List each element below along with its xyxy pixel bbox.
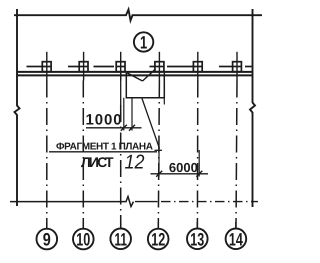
funnel V right branch (143, 69, 156, 81)
gridline 12 axis (158, 81, 159, 229)
gridline 13 axis (196, 81, 198, 229)
grid circle 13 (187, 229, 208, 250)
fragment number circle 1 (134, 32, 153, 51)
svg-text:10: 10 (76, 230, 90, 250)
gridline 14 axis (236, 81, 237, 229)
column K11 square (116, 62, 125, 72)
dimension 1000 line (86, 127, 142, 129)
grid circle 14 (226, 229, 247, 250)
dimension 6000 extension line right (198, 150, 200, 177)
column K9 centerline (46, 52, 48, 81)
funnel V left branch (127, 73, 143, 81)
top border line with break (14, 10, 262, 21)
column K13 centerline (197, 52, 199, 81)
gridline 10 axis (82, 81, 84, 229)
svg-text:ЛИСТ: ЛИСТ (81, 154, 114, 170)
left border line with break (15, 9, 20, 206)
column K11 centerline (120, 52, 122, 81)
column K9 square (42, 62, 51, 72)
dimension 6000 tick left (156, 171, 162, 177)
grid circle 11 (110, 229, 131, 250)
grid circle 12 (148, 229, 169, 250)
svg-text:13: 13 (190, 229, 204, 249)
leader foot tick (155, 149, 163, 151)
svg-text:6000: 6000 (169, 160, 198, 175)
gridline 11 axis (120, 73, 122, 105)
dimension 6000 tick right (196, 171, 202, 177)
svg-text:1000: 1000 (86, 112, 123, 129)
svg-text:1: 1 (140, 32, 147, 52)
wall lower line (17, 74, 253, 76)
svg-text:12: 12 (125, 152, 145, 174)
protrusion rectangle (126, 73, 164, 98)
column K12 centerline (158, 52, 160, 81)
bottom cut line solid part with break (10, 197, 134, 207)
grid circle 10 (73, 229, 94, 250)
wall upper line (17, 71, 253, 73)
dimension 1000 extension line right (131, 98, 133, 131)
svg-text:9: 9 (43, 230, 51, 250)
right border line with break (250, 9, 255, 207)
dimension 1000 extension line left (123, 98, 125, 131)
gridline 9 axis (46, 81, 48, 229)
label underline (49, 151, 157, 153)
dimension 1000 tick right (129, 125, 135, 131)
dimension 6000 line (151, 173, 209, 175)
column K10 square (79, 62, 88, 72)
svg-text:12: 12 (151, 230, 165, 250)
column K10 centerline (83, 52, 85, 81)
column K12 square (155, 62, 164, 72)
dimension 1000 tick left (121, 125, 127, 131)
column K14 centerline (236, 52, 238, 81)
svg-text:14: 14 (229, 229, 243, 249)
column K14 square (233, 62, 242, 72)
flange dash segments at y=66.5 (27, 66, 252, 68)
grid circle 9 (37, 229, 58, 250)
svg-text:11: 11 (114, 229, 127, 249)
bottom cut line dash-dot part (135, 201, 158, 203)
dimension 6000 extension line left (158, 149, 160, 177)
column K13 square (193, 62, 202, 72)
leader line from fragment to label (142, 99, 160, 149)
